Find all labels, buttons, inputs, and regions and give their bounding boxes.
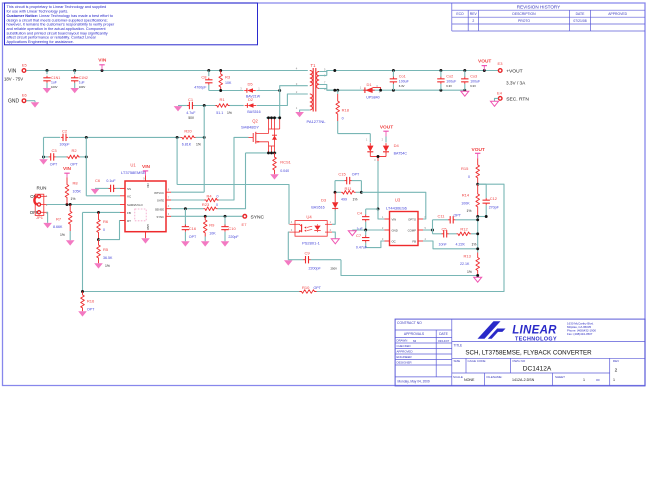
wire U3 OPTO route (361, 192, 425, 219)
svg-text:RUN: RUN (37, 185, 47, 190)
sheet border frame (3, 3, 646, 386)
wire T1 secondary top jog (319, 71, 335, 72)
capacitor C1N2 (74, 71, 76, 75)
svg-text:1%: 1% (472, 243, 477, 247)
svg-text:100V: 100V (51, 85, 58, 89)
svg-text:FB: FB (127, 211, 131, 215)
svg-text:SS: SS (127, 187, 131, 191)
svg-text:1%: 1% (60, 233, 65, 237)
terminal E7 SYNC (243, 215, 247, 219)
svg-text:Q2: Q2 (252, 119, 258, 124)
svg-text:R2: R2 (71, 148, 77, 153)
svg-text:VIN: VIN (146, 183, 150, 188)
svg-text:C5: C5 (441, 227, 447, 232)
svg-text:C7: C7 (356, 233, 362, 238)
svg-text:GND: GND (146, 224, 150, 230)
svg-text:2: 2 (615, 368, 618, 374)
svg-text:10K: 10K (225, 81, 232, 85)
wire output top rail (327, 70, 498, 72)
svg-text:REV: REV (613, 359, 619, 363)
svg-text:DESCRIPTION: DESCRIPTION (512, 12, 536, 16)
svg-text:1%: 1% (196, 143, 201, 147)
svg-text:DWG NO: DWG NO (513, 359, 526, 363)
svg-text:R8: R8 (73, 180, 79, 185)
svg-text:BAS516: BAS516 (311, 205, 324, 209)
svg-text:PA1277NL: PA1277NL (306, 119, 326, 124)
svg-text:E6: E6 (22, 93, 28, 98)
svg-text:6.3V: 6.3V (446, 84, 452, 88)
svg-text:DATE: DATE (439, 332, 449, 336)
ground symbol R5 (94, 263, 103, 268)
svg-text:OPT: OPT (50, 162, 58, 166)
svg-text:0.040: 0.040 (280, 169, 289, 173)
svg-text:100pF: 100pF (59, 143, 70, 147)
svg-text:BAS516: BAS516 (247, 110, 260, 114)
ground symbol E6 (31, 102, 40, 107)
svg-text:E7: E7 (242, 222, 248, 227)
svg-text:0: 0 (468, 175, 470, 179)
svg-text:1%: 1% (353, 198, 358, 202)
svg-text:LT3758EMSE: LT3758EMSE (121, 170, 146, 175)
capacitor C7 (365, 230, 367, 236)
ground symbol C1 left (178, 105, 188, 107)
svg-text:SYNC: SYNC (157, 215, 165, 219)
capacitor C11 (433, 219, 449, 221)
svg-text:C9: C9 (304, 251, 310, 256)
svg-text:SCALE: SCALE (453, 375, 463, 379)
svg-text:Monday, May 04, 2009: Monday, May 04, 2009 (398, 379, 430, 383)
wire SS C6 line (95, 187, 109, 189)
svg-text:50V: 50V (188, 116, 195, 120)
svg-text:Co2: Co2 (446, 74, 453, 78)
svg-text:270pF: 270pF (489, 205, 500, 209)
svg-text:1%: 1% (467, 270, 472, 274)
svg-text:100uF: 100uF (470, 79, 480, 83)
svg-text:E4: E4 (497, 91, 503, 96)
svg-text:10K: 10K (209, 231, 216, 235)
wire VC vertical (85, 137, 87, 195)
svg-text:REV: REV (470, 12, 478, 16)
svg-text:2: 2 (472, 19, 474, 23)
svg-text:Applications Engineering for a: Applications Engineering for assistance. (7, 40, 74, 44)
svg-text:C1: C1 (188, 97, 194, 102)
wire JP1 pin3 to ground (47, 212, 48, 223)
svg-text:1: 1 (613, 378, 615, 382)
svg-text:4.7uF: 4.7uF (186, 111, 196, 115)
wire U3 FB route (423, 241, 478, 249)
capacitor C10 (224, 216, 226, 226)
svg-text:NONE: NONE (464, 378, 475, 382)
svg-text:0: 0 (342, 116, 344, 120)
diode D3 BAS516 (334, 192, 336, 202)
svg-text:R11: R11 (344, 186, 352, 191)
svg-text:OPT: OPT (70, 162, 78, 166)
svg-text:R7: R7 (56, 216, 62, 221)
svg-text:+VOUT: +VOUT (506, 69, 522, 75)
wire C3 to R2 (56, 156, 67, 158)
svg-text:R15: R15 (461, 166, 469, 171)
svg-text:UPS840: UPS840 (366, 95, 379, 99)
resistor R6 (97, 212, 101, 239)
wire U4 pin3 down (288, 232, 289, 260)
svg-text:FILENAME:: FILENAME: (487, 375, 503, 379)
wire GATE to Q2 gate (219, 137, 249, 200)
ground symbol RCS1 (270, 174, 279, 179)
resistor R13 (476, 253, 480, 276)
svg-text:SENSE: SENSE (155, 207, 164, 211)
svg-text:R6: R6 (103, 219, 109, 224)
svg-text:OPT: OPT (352, 172, 360, 176)
capacitor C1N1 (46, 71, 48, 75)
svg-text:REVISION HISTORY: REVISION HISTORY (517, 4, 560, 9)
svg-text:Fax: (408)434-0507: Fax: (408)434-0507 (567, 332, 593, 336)
svg-text:CAGE CODE: CAGE CODE (468, 359, 486, 363)
svg-text:DRAWN: DRAWN (397, 339, 408, 343)
svg-text:R23: R23 (202, 202, 210, 207)
svg-text:Co3: Co3 (470, 74, 477, 78)
wire VIN rail (26, 70, 308, 72)
svg-text:R10: R10 (302, 285, 310, 290)
svg-text:6.3V: 6.3V (470, 84, 476, 88)
ground symbol E4 (491, 101, 499, 106)
svg-text:1%: 1% (467, 209, 472, 213)
svg-text:1%: 1% (71, 197, 76, 201)
svg-text:SCH, LT3758EMSE, FLYBACK CONVE: SCH, LT3758EMSE, FLYBACK CONVERTER (465, 350, 592, 357)
svg-text:220pF: 220pF (228, 235, 239, 239)
svg-text:LT4430ES6: LT4430ES6 (386, 205, 408, 210)
wire T1 pin1 to ground (300, 110, 310, 112)
svg-text:C15: C15 (338, 171, 346, 176)
capacitor Co1 (392, 71, 394, 78)
svg-text:OF: OF (596, 378, 600, 382)
resistor R5 (97, 240, 101, 264)
svg-text:VIN: VIN (63, 166, 72, 172)
wire T1 secondary bottom jog (319, 85, 335, 91)
capacitor C16 (184, 209, 186, 226)
svg-text:OPTO: OPTO (408, 217, 417, 221)
ground symbol C10 (221, 241, 230, 246)
customer notice box (5, 3, 258, 45)
ground symbol R9 (201, 241, 210, 246)
svg-text:CHECKED: CHECKED (397, 344, 411, 348)
wire FB node column (477, 217, 479, 253)
resistor R15 (476, 159, 480, 185)
capacitor C12 (478, 183, 487, 185)
ground symbol U1 (141, 238, 150, 243)
svg-text:22.1K: 22.1K (460, 262, 470, 266)
svg-text:APPROVALS: APPROVALS (404, 332, 425, 336)
svg-text:R14: R14 (462, 192, 470, 197)
resistor R16 (81, 292, 85, 312)
svg-text:4700pF: 4700pF (194, 85, 207, 89)
wire SYNC line (171, 215, 243, 217)
svg-text:R16: R16 (87, 299, 95, 304)
wire R10 feedback line (83, 291, 300, 293)
svg-text:51.1: 51.1 (216, 111, 223, 115)
ground symbol C9 (284, 260, 293, 265)
svg-text:VOUT: VOUT (478, 58, 491, 64)
svg-text:R3: R3 (225, 75, 231, 80)
svg-text:MI: MI (413, 339, 416, 343)
wire SENSE to RCS1 (218, 153, 246, 209)
svg-text:R18: R18 (342, 107, 350, 112)
svg-text:2200pF: 2200pF (309, 266, 322, 270)
revision history table (452, 9, 645, 11)
svg-text:3.3V / 3A: 3.3V / 3A (506, 80, 526, 85)
wire E6 to ground (26, 100, 35, 102)
resistor R20 (181, 136, 196, 140)
wire U3 COMP route (423, 229, 433, 231)
svg-text:R4: R4 (206, 194, 212, 199)
ground symbol R7 (66, 240, 75, 245)
svg-text:250V: 250V (331, 266, 338, 270)
svg-text:1: 1 (583, 378, 585, 382)
wire R2 to vertical (80, 156, 86, 158)
ground symbol C6 (91, 189, 100, 194)
svg-text:8.66K: 8.66K (53, 225, 63, 229)
svg-text:RT: RT (127, 219, 131, 223)
svg-text:PS2801-1: PS2801-1 (302, 241, 321, 246)
resistor R9 (203, 216, 207, 236)
resistor R8 (65, 178, 69, 205)
wire node to Q2 drain (279, 91, 281, 118)
resistor R11 (335, 191, 341, 193)
svg-text:1%: 1% (105, 264, 110, 268)
svg-text:Co1: Co1 (399, 74, 406, 78)
ground symbol R13 (474, 277, 482, 282)
wire GATE line (171, 199, 205, 201)
svg-text:OPT: OPT (189, 235, 197, 239)
wire D4 to U3 VIN (377, 161, 379, 209)
svg-text:6.3V: 6.3V (399, 84, 405, 88)
svg-text:100uF: 100uF (399, 79, 409, 83)
svg-text:COMP: COMP (408, 228, 417, 232)
svg-text:ENGINEER: ENGINEER (397, 355, 412, 359)
resistor R4 (205, 198, 219, 202)
svg-text:D1: D1 (366, 82, 372, 87)
title block (395, 319, 645, 386)
svg-text:10nF: 10nF (439, 243, 448, 247)
svg-text:D4: D4 (394, 143, 400, 148)
svg-text:OPT: OPT (454, 214, 462, 218)
ground symbol R16 (78, 311, 87, 316)
svg-text:DATE: DATE (576, 12, 586, 16)
svg-text:105K: 105K (73, 189, 82, 193)
svg-text:GND: GND (392, 228, 398, 232)
terminal E3 +VOUT (498, 69, 502, 73)
resistor R14 (476, 184, 480, 216)
svg-text:SEC. RTN: SEC. RTN (506, 97, 529, 103)
wire Q2 source bar (246, 152, 277, 154)
wire C2 line to R20 (86, 136, 180, 138)
power flag VOUT divider (477, 153, 479, 158)
svg-text:R1: R1 (219, 97, 225, 102)
svg-text:D5: D5 (247, 81, 253, 86)
power flag VOUT output (483, 66, 485, 71)
resistor R10 (300, 290, 317, 294)
resistor R7 (68, 205, 72, 232)
svg-text:4.22K: 4.22K (456, 243, 466, 247)
wire FB vertical to R10 line (82, 212, 84, 291)
svg-text:18V - 75V: 18V - 75V (4, 77, 23, 82)
svg-text:1412A-2.DSN: 1412A-2.DSN (512, 378, 535, 382)
svg-text:VOUT: VOUT (380, 125, 393, 131)
svg-text:T1: T1 (311, 63, 317, 68)
capacitor C9 (288, 259, 303, 261)
ground symbol C3 (39, 159, 48, 164)
svg-text:R13: R13 (464, 253, 472, 258)
ground symbol T1 (295, 112, 304, 117)
svg-text:FB: FB (412, 239, 416, 243)
svg-text:R5: R5 (103, 247, 109, 252)
svg-text:APPROVED: APPROVED (608, 12, 627, 16)
svg-text:VIN: VIN (392, 217, 397, 221)
svg-text:E5: E5 (22, 62, 28, 67)
svg-text:GATE: GATE (157, 199, 164, 203)
resistor R23 (204, 207, 218, 211)
svg-text:OPT: OPT (87, 308, 95, 312)
svg-text:DESIGNER: DESIGNER (397, 361, 412, 365)
node junction dots on VIN rail (46, 69, 49, 72)
wire R10 line to VOUT sense loop (317, 184, 505, 291)
capacitor C15 with R11 parallel (334, 181, 336, 193)
svg-text:U1: U1 (130, 163, 136, 168)
svg-text:SYNC: SYNC (251, 214, 265, 220)
svg-text:0.47uF: 0.47uF (356, 245, 368, 249)
diode D2 BAS516 (246, 103, 248, 108)
svg-text:U3: U3 (395, 198, 401, 203)
svg-text:C1N2: C1N2 (79, 76, 88, 80)
wire output bottom rail (327, 89, 465, 91)
svg-text:R20: R20 (184, 128, 192, 133)
resistor R1 (216, 104, 230, 108)
svg-text:R12: R12 (460, 227, 468, 232)
wire U3 VIN route (378, 209, 385, 219)
svg-text:PROTO: PROTO (518, 19, 530, 23)
Linear Technology logo (478, 321, 501, 339)
wire RT route (99, 221, 126, 240)
svg-text:0.1uF: 0.1uF (106, 179, 116, 183)
svg-text:C2: C2 (62, 128, 68, 133)
capacitor C6 (110, 185, 112, 192)
svg-text:C12: C12 (490, 196, 498, 201)
svg-text:RCS1: RCS1 (280, 160, 291, 165)
svg-text:BAT54C: BAT54C (394, 151, 408, 155)
svg-text:VIN: VIN (142, 164, 151, 170)
capacitor C1 (188, 102, 190, 109)
wire R20 to INTVCC vertical (196, 136, 205, 138)
svg-text:100uF: 100uF (446, 79, 456, 83)
svg-text:07/21/08: 07/21/08 (573, 19, 586, 23)
ground symbol output (461, 91, 469, 96)
svg-text:Si4848DY: Si4848DY (241, 125, 259, 130)
resistor R18 (336, 94, 340, 121)
wire R18 to D4 (338, 133, 371, 135)
wire C8 R3 bottom to D5 (209, 90, 244, 92)
svg-text:GND: GND (8, 99, 20, 105)
wire D5 to T1 pin 3 node (256, 90, 279, 92)
svg-text:VIN: VIN (8, 68, 17, 74)
svg-text:100K: 100K (461, 201, 470, 205)
power flag VIN U1 (145, 171, 147, 176)
diode D5 BAV21W (246, 88, 248, 93)
capacitor C2 (44, 136, 47, 138)
wire INTVCC vertical (203, 106, 205, 193)
svg-text:C1N1: C1N1 (51, 76, 60, 80)
svg-text:1%: 1% (227, 111, 232, 115)
svg-text:0: 0 (216, 203, 218, 207)
svg-text:0: 0 (217, 195, 219, 199)
wire VC comp node vertical to U4 (176, 137, 178, 184)
svg-text:U4: U4 (306, 214, 312, 219)
ground symbol U3 (348, 231, 356, 236)
wire D3 to U4 pin1 (332, 210, 335, 225)
svg-text:03/14/07: 03/14/07 (438, 339, 450, 343)
resistor R12 (449, 233, 457, 235)
svg-text:OPT: OPT (314, 286, 322, 290)
capacitor C4 (366, 208, 378, 210)
capacitor C8 (208, 71, 210, 77)
ground symbol C16 (181, 241, 190, 246)
svg-text:C8: C8 (201, 75, 207, 80)
svg-text:SIZE: SIZE (454, 359, 461, 363)
diode D1 UPS840 (364, 87, 366, 93)
wire C9 to R13 bottom (341, 260, 478, 276)
svg-text:C11: C11 (437, 213, 445, 218)
terminal E4 SEC RTN (498, 97, 502, 101)
svg-text:6.81K: 6.81K (182, 143, 192, 147)
power flag VOUT D4 (385, 131, 387, 136)
wire Q2 drain bar (266, 117, 280, 119)
wire U3 GND rail (352, 229, 384, 231)
capacitor Co3 (464, 71, 466, 78)
wire FB line (83, 211, 121, 213)
power flag VIN R8 (66, 173, 68, 177)
svg-text:C6: C6 (95, 178, 101, 183)
svg-text:TITLE: TITLE (454, 344, 463, 348)
svg-text:LINEAR: LINEAR (512, 325, 557, 337)
svg-text:R9: R9 (209, 223, 215, 228)
svg-text:DC1412A: DC1412A (523, 365, 552, 372)
resistor RCS1 (273, 153, 277, 174)
svg-text:100V: 100V (79, 85, 86, 89)
wire C1 to R1 (194, 105, 216, 107)
ground symbol U4 (331, 239, 339, 244)
power flag VIN top (101, 65, 103, 71)
capacitor C5 (433, 233, 442, 235)
resistor R2 (67, 155, 81, 159)
svg-text:OC: OC (392, 239, 396, 243)
terminal E6 GND (22, 99, 26, 103)
svg-text:TECHNOLOGY: TECHNOLOGY (515, 336, 557, 342)
ground symbol JP1 (43, 223, 52, 228)
wire U4 pin2 to ground (332, 232, 335, 239)
svg-text:VIN: VIN (98, 57, 107, 63)
wire D2 to T1 pin 2 (257, 94, 308, 106)
capacitor C3 (44, 156, 49, 158)
wire E4 to ground (495, 98, 499, 101)
wire C2/C3 left vertical (43, 137, 45, 159)
svg-text:D3: D3 (321, 198, 327, 203)
wire RUN line to U1 SHDN (47, 204, 121, 206)
svg-text:0: 0 (103, 228, 105, 232)
svg-text:SHEET: SHEET (555, 375, 565, 379)
svg-text:C4: C4 (357, 211, 363, 216)
svg-text:APPROVED: APPROVED (397, 350, 413, 354)
svg-text:C16: C16 (189, 226, 197, 231)
svg-text:C10: C10 (228, 226, 236, 231)
svg-text:VOUT: VOUT (472, 147, 485, 153)
